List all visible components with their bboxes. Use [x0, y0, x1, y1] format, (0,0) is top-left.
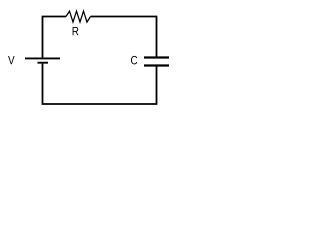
label V [8, 56, 15, 64]
label R [73, 27, 79, 35]
battery V top plate (long) [25, 57, 60, 59]
wire: capacitor bottom to bottom-right corner, bottom wire, up to battery bottom [43, 64, 157, 104]
wire: left-top segment (battery top to top-left corner to resistor left lead) [43, 17, 67, 58]
label C [131, 56, 137, 65]
capacitor C bottom plate [144, 64, 169, 66]
capacitor C top plate [144, 56, 169, 58]
wire: resistor right lead to top-right corner down to capacitor top [91, 17, 157, 57]
battery V bottom plate (short) [38, 62, 49, 64]
resistor R [66, 11, 91, 22]
